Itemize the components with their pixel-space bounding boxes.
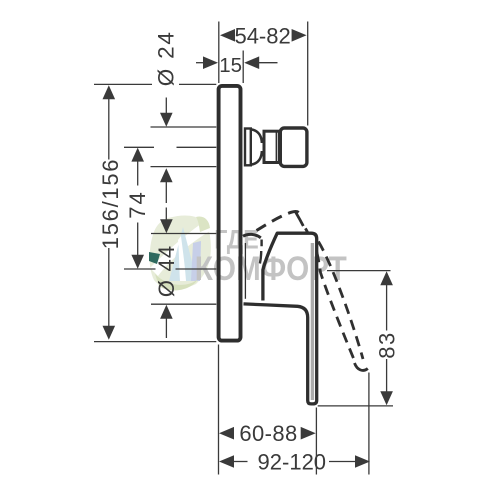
ext line top left bbox=[218, 22, 220, 84]
spout centerline y147 bbox=[124, 146, 154, 148]
dimension 15 bbox=[196, 62, 204, 64]
spout middle segment bbox=[264, 131, 279, 162]
dashed handle open position: blade right edge bbox=[305, 228, 307, 232]
ext line y84 (156/156 top) bbox=[94, 83, 152, 85]
svg-text:15: 15 bbox=[219, 54, 242, 77]
svg-text:60-88: 60-88 bbox=[239, 421, 297, 446]
ext line handle bottom y304.2 bbox=[151, 303, 216, 305]
spout middle segment inner line bbox=[275, 131, 277, 163]
dimension 74 bbox=[131, 148, 144, 162]
lever handle solid (grip + blade) bbox=[244, 233, 317, 404]
bottom ext line left bbox=[218, 345, 220, 475]
ext line handle top y233.5 bbox=[151, 233, 216, 235]
svg-text:83: 83 bbox=[375, 331, 400, 358]
spout trumpet neck bbox=[252, 130, 262, 165]
svg-text:Ø 44: Ø 44 bbox=[154, 245, 179, 298]
dashed handle open position: blade left edge bbox=[296, 212, 304, 226]
ext line plate bottom y341.6 bbox=[94, 341, 216, 343]
watermark logo bbox=[149, 215, 211, 290]
spout flange ring at plate bbox=[245, 129, 251, 166]
bottom ext line blade bbox=[315, 408, 317, 475]
escutcheon base line bbox=[244, 243, 246, 299]
dimension Ø24 bbox=[165, 98, 167, 114]
spout end segment bbox=[280, 128, 307, 166]
dimension 54-82 bbox=[220, 29, 235, 42]
wall plate bbox=[219, 86, 241, 341]
svg-text:92-120: 92-120 bbox=[258, 449, 327, 474]
ext line spout top y127 bbox=[151, 126, 217, 128]
ext line spout end bbox=[307, 22, 309, 126]
dashed handle open position: tip hook bbox=[355, 363, 368, 370]
svg-text:Ø 24: Ø 24 bbox=[154, 30, 179, 86]
dimension Ø44 arrows bbox=[160, 219, 173, 233]
svg-text:54-82: 54-82 bbox=[234, 23, 290, 48]
dimension 83 bbox=[327, 270, 391, 272]
lever blade gray face band bbox=[311, 243, 314, 400]
dimension 60-88 bbox=[219, 427, 234, 440]
line 74 bottom y269 bbox=[124, 268, 156, 270]
escutcheon top curve bbox=[243, 234, 261, 237]
bottom ext line dashed tip bbox=[368, 373, 370, 475]
ext line spout bottom y166.6 bbox=[151, 166, 217, 168]
escutcheon right edge dashes bbox=[260, 240, 262, 264]
ext line plate right bbox=[242, 51, 244, 84]
dashed handle open position: grip top edge bbox=[257, 212, 300, 231]
svg-text:74: 74 bbox=[125, 190, 150, 218]
dimension 156/156 bbox=[103, 85, 116, 99]
dimension 92-120 bbox=[219, 455, 234, 468]
svg-text:156/156: 156/156 bbox=[98, 158, 123, 249]
